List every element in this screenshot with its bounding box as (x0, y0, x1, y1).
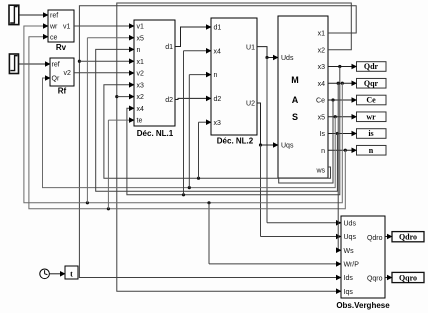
svg-text:Qqro: Qqro (367, 276, 383, 283)
svg-text:d2: d2 (165, 97, 173, 104)
wire NL1 d1 -> NL2 d1 (175, 27, 210, 47)
source block S2 (step) (9, 54, 18, 74)
block MAS (278, 16, 328, 178)
wire MAS output to display box (328, 82, 356, 84)
svg-text:n: n (137, 47, 141, 54)
svg-text:Obs.Verghese: Obs.Verghese (336, 301, 390, 310)
svg-text:x4: x4 (214, 48, 222, 55)
svg-text:Ce: Ce (366, 96, 376, 105)
svg-text:Rv: Rv (56, 43, 67, 52)
block Rf (50, 58, 74, 86)
wire L3 -> NL2 n (188, 75, 190, 188)
wire bus L6 (wr) (24, 26, 342, 203)
display box Qqr (357, 78, 387, 88)
svg-text:ws: ws (315, 168, 325, 175)
svg-text:Qdr: Qdr (364, 62, 379, 71)
svg-text:Déc. NL.1: Déc. NL.1 (137, 129, 174, 138)
svg-text:x5: x5 (318, 114, 326, 121)
svg-text:n: n (369, 146, 374, 155)
svg-text:x4: x4 (137, 106, 145, 113)
wire L1 -> NL2 x3 (198, 122, 200, 178)
svg-text:x3: x3 (214, 120, 222, 127)
svg-text:Qqr: Qqr (364, 79, 379, 88)
wire L6 -> NL1 x5 (86, 38, 88, 203)
svg-text:S: S (292, 112, 298, 122)
svg-text:v1: v1 (63, 23, 71, 30)
display box Ce (357, 95, 387, 105)
svg-text:n: n (214, 72, 218, 79)
svg-text:Ce: Ce (316, 98, 325, 105)
svg-text:x1: x1 (318, 31, 326, 38)
svg-text:ce: ce (50, 35, 58, 42)
svg-text:Uqs: Uqs (344, 234, 357, 241)
wire MAS output to display box (328, 99, 356, 101)
svg-text:Qdro: Qdro (367, 235, 383, 242)
svg-text:d2: d2 (214, 96, 222, 103)
svg-text:v2: v2 (64, 70, 72, 77)
svg-text:v1: v1 (137, 24, 145, 31)
wire S1 -> Rv ref (19, 14, 47, 16)
svg-text:v2: v2 (137, 71, 145, 78)
svg-text:x4: x4 (318, 81, 326, 88)
display box n (357, 145, 387, 155)
display box Qdro (392, 232, 424, 242)
svg-text:x1: x1 (137, 59, 145, 66)
svg-text:Rf: Rf (58, 87, 67, 96)
source block S1 (step) (9, 5, 19, 24)
svg-text:ref: ref (50, 13, 58, 20)
svg-text:d1: d1 (165, 44, 173, 51)
wire NL2 U2 -> MAS Uqs (257, 103, 277, 145)
svg-text:x5: x5 (137, 35, 145, 42)
wire Qqro -> box (385, 277, 391, 279)
wire bus L5 (x4) (127, 67, 340, 195)
wire x4 -> Obs Ws (338, 83, 340, 250)
svg-text:Qdro: Qdro (399, 233, 417, 242)
wire L7 -> NL1 te (107, 120, 109, 209)
svg-text:Qqro: Qqro (399, 273, 417, 282)
svg-text:Wr/P: Wr/P (344, 262, 360, 269)
block Dec NL.1 (134, 20, 175, 126)
wire L5 -> NL2 x4 (183, 51, 185, 195)
svg-text:A: A (292, 95, 299, 105)
wire MAS output to display box (328, 116, 356, 118)
wire MAS output to display box (328, 66, 356, 68)
svg-text:wr: wr (49, 23, 58, 30)
wire bus L3 (x5 -> Qr) (43, 78, 336, 188)
svg-text:Qr: Qr (52, 76, 60, 83)
svg-text:Ids: Ids (344, 275, 354, 282)
display box Qdr (357, 62, 387, 72)
svg-text:x3: x3 (318, 64, 326, 71)
svg-text:x2: x2 (318, 47, 326, 54)
wire clock -> t (49, 273, 64, 275)
wire bus L2 (Ce) (279, 100, 333, 183)
block t (to workspace) (65, 266, 78, 279)
wire bus L4 (n) (96, 49, 338, 191)
svg-text:U2: U2 (246, 101, 255, 108)
wire x2 -> NL1 x2 (117, 96, 133, 98)
svg-text:Ws: Ws (344, 248, 355, 255)
svg-text:te: te (137, 118, 143, 125)
svg-text:M: M (291, 75, 299, 85)
display box is (357, 129, 387, 139)
svg-text:wr: wr (366, 112, 376, 121)
display box Qqro (392, 272, 424, 282)
junction x4 line (341, 82, 344, 85)
wire S2 -> Rf ref (19, 63, 50, 65)
wire bus L7 (ce) (29, 37, 345, 209)
wire Rv v1 -> NL1 v1 (74, 25, 133, 27)
svg-text:Déc. NL.2: Déc. NL.2 (217, 137, 254, 146)
wire MAS output to display box (328, 133, 356, 135)
junction Is line (336, 132, 339, 135)
svg-text:t: t (70, 270, 73, 279)
svg-text:Uds: Uds (281, 55, 294, 62)
svg-text:is: is (368, 129, 373, 138)
svg-text:Uds: Uds (344, 220, 357, 227)
junction Ce line (331, 98, 334, 101)
wire Qdro -> box (385, 236, 391, 238)
wire NL1 d2 -> NL2 d2 (175, 98, 210, 99)
svg-text:x3: x3 (137, 82, 145, 89)
wire NL2 U1 -> MAS Uds (257, 47, 277, 58)
clock block (40, 269, 50, 279)
svg-text:d1: d1 (214, 25, 222, 32)
wire x2 feedback loop (top) (117, 3, 351, 291)
wire x1 feedback loop (top) (79, 6, 356, 278)
wire L6 -> Obs Wr/P (208, 203, 210, 264)
svg-text:U1: U1 (246, 44, 255, 51)
junction n line (344, 149, 347, 152)
wire bus L1 (ws/x3) (104, 85, 331, 178)
junction x4 line 2 (337, 82, 340, 85)
svg-text:Iqs: Iqs (344, 289, 354, 296)
block Obs.Verghese (341, 216, 385, 298)
wire Rf v2 -> NL1 v2 (74, 72, 133, 74)
wire MAS output to display box (328, 149, 356, 151)
display box wr (357, 112, 387, 122)
svg-text:ref: ref (52, 62, 60, 69)
svg-text:Uqs: Uqs (281, 143, 294, 150)
junction x3 line (338, 65, 341, 68)
block Dec NL.2 (211, 18, 257, 135)
junction x5 line (334, 115, 337, 118)
block Rv (48, 10, 74, 42)
wire x1 -> NL1 x1 (79, 60, 133, 62)
wire U1 down to Obs Uds (266, 58, 268, 223)
svg-text:n: n (321, 148, 325, 155)
wire U2 down to Obs Uqs (260, 145, 262, 237)
svg-text:x2: x2 (137, 94, 145, 101)
svg-text:Is: Is (320, 131, 326, 138)
